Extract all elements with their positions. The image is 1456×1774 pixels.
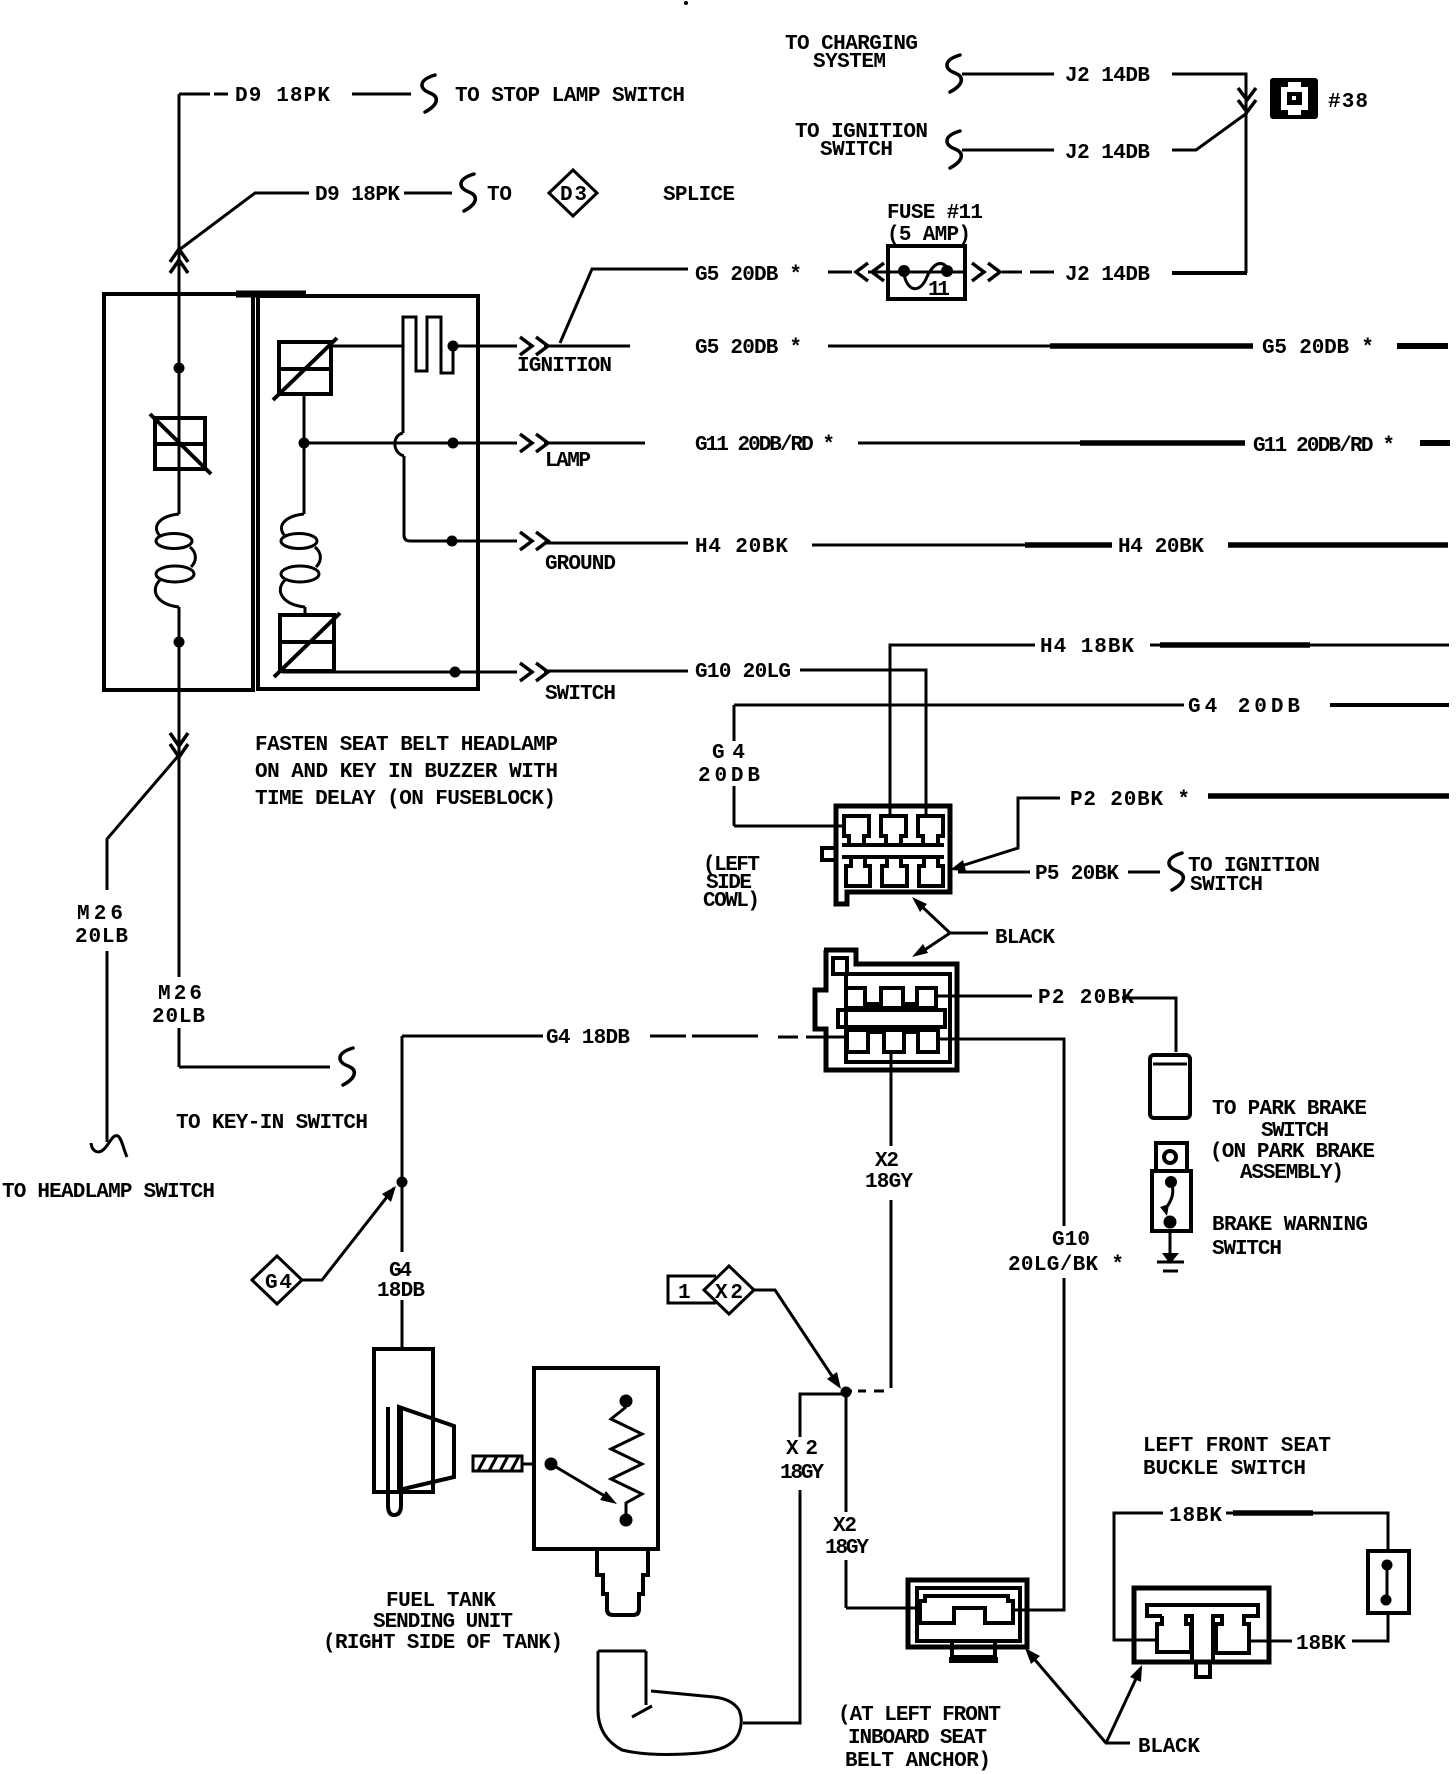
park brake wire capsule	[1150, 1055, 1190, 1118]
svg-text:BLACK: BLACK	[995, 927, 1055, 950]
wire H4 right edge	[1228, 542, 1448, 548]
svg-text:18GY: 18GY	[780, 1462, 824, 1485]
svg-text:G10: G10	[1052, 1229, 1090, 1252]
svg-text:G5 20DB *: G5 20DB *	[695, 264, 802, 287]
connector C1 middle channel	[842, 845, 944, 857]
svg-text:G5 20DB *: G5 20DB *	[695, 337, 802, 360]
wire M26 to key-in switch	[179, 1066, 330, 1069]
sender float cone	[399, 1407, 454, 1490]
junction dot ground row	[447, 536, 458, 547]
svg-text:BUCKLE SWITCH: BUCKLE SWITCH	[1143, 1458, 1306, 1481]
coil right	[280, 514, 320, 607]
wire H4 18BK right	[1150, 644, 1449, 647]
wire J2 14DB charging row	[962, 73, 1054, 76]
page edge mark	[684, 1, 688, 5]
wire X2 18GY left branch down to elbow	[743, 1394, 846, 1723]
switch vertical continues to ground row	[404, 456, 478, 541]
wire P5 20BK from connector	[958, 871, 1030, 874]
connector C1 left tab	[822, 848, 836, 860]
connector C2 cavity bottom 1	[847, 1030, 868, 1052]
svg-text:BLACK: BLACK	[1138, 1736, 1200, 1759]
svg-text:J2 14DB: J2 14DB	[1065, 65, 1150, 88]
junction dot ignition pin	[448, 341, 459, 352]
svg-text:BRAKE WARNING: BRAKE WARNING	[1212, 1214, 1368, 1237]
svg-text:SWITCH: SWITCH	[820, 139, 893, 162]
wire G5 from ignition pin	[544, 345, 630, 348]
wire G4 18DB vertical	[401, 1036, 404, 1349]
fuse element	[898, 265, 910, 277]
svg-text:INBOARD SEAT: INBOARD SEAT	[848, 1727, 987, 1750]
svg-text:J2 14DB: J2 14DB	[1065, 142, 1150, 165]
wire G5 20DB long	[828, 345, 1050, 348]
resistor element	[620, 1395, 633, 1408]
junction dot G4	[397, 1177, 408, 1188]
svg-text:18BK: 18BK	[1169, 1505, 1222, 1528]
coil left	[155, 514, 195, 607]
svg-text:H4 18BK: H4 18BK	[1040, 636, 1134, 659]
svg-text:M26: M26	[158, 983, 202, 1006]
wire 18BK into buckle switch	[1249, 1640, 1292, 1643]
pin GROUND with connector arrows	[478, 540, 517, 543]
wire J2 14DB ignition row	[962, 149, 1054, 152]
svg-text:G11 20DB/RD *: G11 20DB/RD *	[1253, 435, 1395, 458]
wire break	[947, 55, 961, 92]
inboard anchor bottom tab	[952, 1642, 995, 1657]
wire break key-in	[340, 1048, 354, 1085]
connector C1 cavity bottom 3	[919, 857, 943, 886]
svg-text:IGNITION: IGNITION	[517, 355, 612, 378]
sender screw shaft	[473, 1456, 534, 1471]
svg-text:D9 18PK: D9 18PK	[315, 184, 400, 207]
svg-text:TO STOP LAMP SWITCH: TO STOP LAMP SWITCH	[455, 85, 685, 108]
leader from G4 diamond with arrow	[302, 1188, 394, 1280]
wire G10 to connector vertical	[800, 670, 926, 816]
svg-text:FUEL TANK: FUEL TANK	[386, 1590, 496, 1613]
wire G11 long	[858, 442, 1080, 445]
svg-text:G4: G4	[265, 1272, 292, 1295]
wire break	[947, 131, 961, 168]
connector arrows left at fuse input	[856, 263, 884, 281]
svg-text:(AT LEFT FRONT: (AT LEFT FRONT	[838, 1704, 1001, 1727]
inboard anchor terminal shape	[920, 1596, 1013, 1623]
svg-text:20LB: 20LB	[152, 1006, 205, 1029]
wire J2 14DB diagonal up to connector	[1172, 113, 1247, 150]
wire P2 20BK leader from C2	[936, 995, 1032, 998]
wire dashes to junction	[846, 1390, 884, 1393]
wire 18BK top loop	[1114, 1513, 1163, 1640]
svg-text:G11 20DB/RD *: G11 20DB/RD *	[695, 434, 835, 457]
fuel sender resistor box	[534, 1368, 658, 1549]
svg-text:20LB: 20LB	[75, 926, 128, 949]
wire P2 20BK leader with arrow	[958, 798, 1060, 867]
wire D9 18PK vertical trunk to fuseblock	[178, 94, 181, 1067]
svg-text:X2: X2	[833, 1515, 857, 1538]
wire G5 right edge	[1397, 343, 1448, 349]
leader from X2 diamond with arrow	[754, 1290, 838, 1385]
svg-text:18GY: 18GY	[825, 1537, 869, 1560]
svg-text:X2: X2	[875, 1150, 899, 1173]
svg-text:M26: M26	[77, 903, 123, 926]
wire H4 20BK long	[812, 544, 1025, 547]
wire G4 18DB row	[402, 1035, 543, 1038]
junction dot lower left	[174, 637, 185, 648]
lamp crossed square lower right box	[274, 613, 340, 677]
wire to J2 label	[1002, 271, 1054, 274]
svg-text:LAMP: LAMP	[545, 450, 591, 473]
svg-text:18BK: 18BK	[1296, 1633, 1346, 1656]
wire G10 20LG/BK vertical lower	[1014, 1278, 1064, 1610]
connector C1 cavity bottom 2	[882, 857, 907, 886]
svg-text:SWITCH: SWITCH	[545, 683, 616, 706]
fuseblock left box	[104, 294, 253, 690]
connector C2 cavity bottom 2	[884, 1030, 904, 1052]
svg-text:(5 AMP): (5 AMP)	[887, 224, 971, 247]
wire to splice D3	[404, 192, 452, 195]
wire M26 branch to headlamp switch	[107, 755, 179, 1142]
svg-text:11: 11	[928, 279, 950, 302]
svg-text:SWITCH: SWITCH	[1261, 1120, 1329, 1143]
svg-text:H4 20BK: H4 20BK	[1118, 536, 1204, 559]
inboard anchor connector inner	[917, 1588, 1020, 1641]
connector C2 cavity top 2	[881, 988, 903, 1008]
svg-text:18GY: 18GY	[865, 1171, 913, 1194]
key-in switch time delay contact	[403, 317, 453, 433]
wire G4 20DB vertical to connector	[734, 705, 842, 826]
fuel tank sending unit bracket	[374, 1349, 433, 1492]
wire from crossed square down to lamp junction	[303, 394, 306, 443]
svg-text:SPLICE: SPLICE	[663, 184, 735, 207]
connector C1 left side cowl outline	[836, 806, 950, 904]
pin SWITCH with connector arrows	[478, 671, 517, 674]
connector C1 cavity top 1	[844, 816, 869, 845]
connector code G4 diamond	[252, 1256, 302, 1304]
svg-text:SYSTEM: SYSTEM	[813, 51, 886, 74]
connector C1 cavity top 2	[881, 816, 906, 845]
junction dot lamp pin	[448, 438, 459, 449]
relay crossed square upper right box	[273, 338, 337, 400]
pin IGNITION with connector arrows	[478, 345, 517, 348]
wire G10 20LG/BK from C2 right side	[937, 1039, 1064, 1226]
connector C2 middle bar	[838, 1010, 945, 1027]
sender rod	[388, 1407, 401, 1515]
svg-text:SWITCH: SWITCH	[1190, 874, 1263, 897]
svg-text:ON AND KEY IN BUZZER WITH: ON AND KEY IN BUZZER WITH	[255, 761, 558, 784]
svg-text:D9 18PK: D9 18PK	[235, 85, 330, 108]
connector C2 outer outline	[815, 950, 957, 1070]
wire P2 20BK right edge	[1208, 793, 1449, 799]
svg-text:D3: D3	[560, 184, 587, 207]
wire into anchor connector right	[1014, 1609, 1064, 1612]
wire G5 diagonal to fuse row	[560, 269, 688, 343]
two-pin inline component	[1368, 1551, 1409, 1613]
connector arrow up into fuseblock wire	[170, 249, 188, 273]
wire G11 right edge	[1420, 440, 1450, 446]
svg-text:FASTEN SEAT BELT HEADLAMP: FASTEN SEAT BELT HEADLAMP	[255, 734, 558, 757]
svg-text:P2 20BK: P2 20BK	[1038, 987, 1134, 1010]
wire G5 to fuse	[828, 271, 852, 274]
connector C2 cavity top 3	[917, 988, 936, 1008]
wire break headlamp	[91, 1136, 127, 1157]
connector C1 cavity bottom 1	[846, 857, 870, 886]
fuse #11 box	[888, 246, 965, 299]
svg-text:LEFT FRONT SEAT: LEFT FRONT SEAT	[1143, 1435, 1331, 1458]
svg-text:G4 18DB: G4 18DB	[546, 1027, 630, 1050]
wire P2 20BK to park brake capsule	[1122, 998, 1176, 1052]
connector arrow down into number 38	[1238, 88, 1256, 112]
connector C2 cavity top 1	[846, 988, 865, 1008]
switch vertical hop over lamp wire	[395, 433, 404, 456]
svg-text:TO KEY-IN SWITCH: TO KEY-IN SWITCH	[176, 1112, 368, 1135]
wire ignition pin inside box	[453, 345, 478, 348]
svg-text:18DB: 18DB	[377, 1280, 425, 1303]
buckle switch connector outline	[1134, 1588, 1269, 1662]
wire D9 18PK row 1	[179, 93, 411, 96]
wire X2 18GY from C2 bottom	[890, 1052, 893, 1388]
svg-text:SENDING UNIT: SENDING UNIT	[373, 1611, 513, 1634]
connector #38 symbol	[1270, 78, 1318, 119]
fuel hose elbow boot	[645, 1651, 648, 1705]
svg-text:G10 20LG: G10 20LG	[695, 661, 791, 684]
wire J2 14DB to corner	[1172, 271, 1247, 275]
connector C2 inner outline	[833, 958, 950, 1062]
wire break to stop lamp switch	[422, 75, 436, 112]
svg-text:P5 20BK: P5 20BK	[1035, 863, 1119, 886]
svg-text:(RIGHT SIDE OF TANK): (RIGHT SIDE OF TANK)	[323, 1632, 563, 1655]
thick segment on fuseblock top edge	[236, 291, 306, 298]
wire G4 20DB row	[734, 704, 1184, 707]
wire coil to lamp crossed square	[304, 607, 307, 615]
wire break P5	[1169, 853, 1183, 890]
wire lamp row inside box	[304, 442, 478, 445]
connector C2 divider marks bottom	[868, 1028, 918, 1034]
wire P5 stub	[1128, 871, 1160, 874]
ground symbol	[1169, 1231, 1172, 1258]
buckle switch bottom tab	[1196, 1662, 1210, 1677]
wire G4 18DB dashes to C2	[650, 1036, 846, 1037]
wire G4 20DB right	[1330, 703, 1449, 707]
buckle switch connector cavities	[1147, 1605, 1258, 1661]
connector arrow down below fuseblock	[170, 733, 188, 757]
svg-text:ASSEMBLY): ASSEMBLY)	[1240, 1162, 1344, 1185]
fuseblock right box	[258, 296, 478, 689]
sender bottom neck	[597, 1549, 648, 1615]
wire down to coil right	[303, 444, 306, 514]
wire from component to buckle switch	[1352, 1613, 1388, 1641]
connector C2 divider marks top	[865, 1002, 917, 1008]
svg-text:FUSE #11: FUSE #11	[887, 202, 983, 225]
svg-text:H4 20BK: H4 20BK	[695, 536, 788, 559]
splice symbol D3	[549, 170, 597, 216]
svg-text:TO PARK BRAKE: TO PARK BRAKE	[1212, 1098, 1367, 1121]
svg-text:TO HEADLAMP SWITCH: TO HEADLAMP SWITCH	[2, 1181, 215, 1204]
wire 18BK to two-pin component	[1226, 1512, 1320, 1515]
brake warning switch body	[1156, 1143, 1187, 1171]
buzzer element crossed square left	[150, 414, 211, 474]
wire from crossed square to key-in switch contact	[331, 345, 403, 348]
connector code X2 box and diamond	[668, 1276, 716, 1303]
brake warning switch contacts	[1165, 1176, 1177, 1188]
svg-text:20LG/BK *: 20LG/BK *	[1008, 1254, 1124, 1277]
wire D9 18PK diagonal to row 2	[179, 193, 309, 250]
svg-text:(ON PARK BRAKE: (ON PARK BRAKE	[1210, 1141, 1375, 1164]
connector C1 cavity top 3	[918, 816, 943, 845]
junction X2	[841, 1387, 852, 1398]
junction dot switch pin	[450, 667, 461, 678]
svg-text:SWITCH: SWITCH	[1212, 1238, 1282, 1261]
wire break	[461, 174, 475, 211]
wire left branch lower	[178, 607, 181, 691]
wire switch row inside box	[282, 671, 478, 674]
connector C2 cavity bottom 3	[918, 1030, 938, 1052]
junction dot lamp row	[299, 438, 310, 449]
svg-text:COWL): COWL)	[703, 890, 760, 913]
wire J2 14DB to connector 38	[1172, 74, 1246, 273]
pin LAMP with connector arrows	[478, 442, 517, 445]
svg-text:J2 14DB: J2 14DB	[1065, 264, 1150, 287]
wire H4 18BK corner and vertical	[890, 645, 1035, 816]
svg-text:P2 20BK *: P2 20BK *	[1070, 789, 1190, 812]
svg-text:#38: #38	[1328, 91, 1368, 114]
svg-text:TO: TO	[487, 184, 512, 207]
svg-text:G5 20DB *: G5 20DB *	[1262, 337, 1374, 360]
svg-text:GROUND: GROUND	[545, 553, 616, 576]
wire X2 18GY center branch to anchor connector	[846, 1392, 917, 1608]
svg-text:TIME DELAY (ON FUSEBLOCK): TIME DELAY (ON FUSEBLOCK)	[255, 788, 556, 811]
svg-text:BELT ANCHOR): BELT ANCHOR)	[845, 1750, 991, 1773]
wiper arm with arrow	[545, 1458, 558, 1471]
svg-text:1: 1	[678, 1282, 691, 1305]
connector arrows right at fuse output	[972, 263, 1000, 281]
junction dot on D9 wire	[174, 363, 185, 374]
inboard anchor connector outer	[908, 1580, 1027, 1647]
